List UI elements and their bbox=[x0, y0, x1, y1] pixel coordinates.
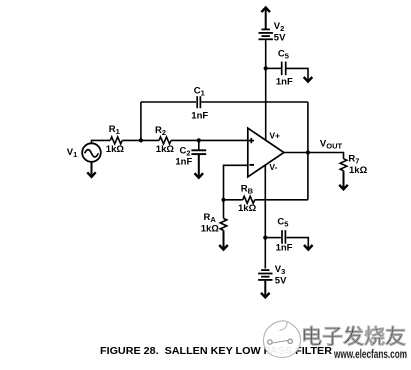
wire main signal line V1 to R1 bbox=[92, 140, 111, 143]
wire C5 bottom to ground bbox=[287, 238, 309, 248]
svg-text:V-: V- bbox=[269, 162, 277, 172]
resistor RB bbox=[243, 196, 255, 203]
svg-text:R1: R1 bbox=[109, 124, 120, 136]
wire V3 to ground bbox=[264, 281, 266, 296]
node C2 junction bbox=[197, 138, 201, 142]
wire feedback riser x=308 bbox=[307, 102, 309, 200]
svg-text:V2: V2 bbox=[274, 21, 285, 33]
wire node A riser to C1 line bbox=[140, 102, 142, 140]
svg-text:C5: C5 bbox=[278, 49, 289, 61]
capacitor C2 bbox=[198, 140, 200, 149]
wire to capacitor C5 bottom bbox=[265, 237, 281, 239]
svg-text:1kΩ: 1kΩ bbox=[106, 144, 125, 155]
svg-text:1nF: 1nF bbox=[276, 77, 293, 88]
capacitor C5 (bottom) bbox=[282, 230, 285, 244]
svg-text:1kΩ: 1kΩ bbox=[349, 165, 368, 176]
svg-text:1nF: 1nF bbox=[175, 157, 192, 168]
capacitor C1 bbox=[197, 96, 200, 108]
svg-text:1nF: 1nF bbox=[191, 110, 208, 121]
svg-text:1nF: 1nF bbox=[276, 243, 293, 254]
ground (V3) bbox=[261, 293, 270, 298]
capacitor C5 (top) bbox=[282, 62, 286, 76]
ground (R7) bbox=[339, 185, 348, 190]
op-amp + input sign bbox=[249, 138, 254, 143]
wire V1 to ground bbox=[91, 162, 93, 175]
battery V3 bbox=[258, 270, 272, 280]
svg-text:电子发烧友: 电子发烧友 bbox=[301, 325, 407, 349]
svg-text:1kΩ: 1kΩ bbox=[238, 203, 257, 214]
wire V2 to op-amp V+ bbox=[265, 40, 267, 140]
svg-text:C2: C2 bbox=[180, 145, 191, 157]
svg-text:R2: R2 bbox=[155, 125, 166, 137]
resistor R7 bbox=[340, 159, 347, 171]
svg-text:C1: C1 bbox=[194, 86, 205, 98]
svg-text:V1: V1 bbox=[67, 147, 78, 159]
svg-text:V3: V3 bbox=[275, 264, 286, 276]
ground (C2) bbox=[195, 173, 204, 178]
node bottom C5 junction bbox=[263, 236, 267, 240]
svg-text:C5: C5 bbox=[277, 217, 288, 229]
power arrow up (V2) bbox=[261, 8, 270, 13]
op-amp U1 bbox=[248, 128, 284, 177]
svg-text:V+: V+ bbox=[269, 131, 280, 141]
svg-text:RA: RA bbox=[204, 212, 217, 224]
wire R2 to op-amp + input bbox=[171, 139, 248, 141]
wire R7 to ground bbox=[343, 171, 345, 188]
resistor RA bbox=[223, 200, 225, 219]
wire C1 line left bbox=[141, 101, 196, 103]
svg-text:5V: 5V bbox=[274, 33, 286, 44]
svg-text:1kΩ: 1kΩ bbox=[156, 144, 175, 155]
resistor R1 bbox=[110, 137, 122, 144]
node VOUT junction bbox=[306, 150, 310, 154]
node A junction bbox=[139, 138, 143, 142]
ground (C5 bottom) bbox=[304, 245, 313, 250]
svg-text:www.elecfans.com: www.elecfans.com bbox=[333, 347, 407, 361]
wire RA to ground bbox=[223, 230, 225, 247]
ground (C5 top) bbox=[304, 77, 313, 82]
source V1 bbox=[82, 143, 101, 162]
wire C1 line right bbox=[201, 101, 308, 103]
wire op-amp output bbox=[284, 153, 344, 159]
svg-text:R7: R7 bbox=[348, 154, 359, 166]
ground (V1) bbox=[87, 172, 95, 177]
svg-text:VOUT: VOUT bbox=[320, 139, 343, 151]
wire R1 to R2 bbox=[122, 139, 159, 141]
wire to RB bbox=[224, 199, 243, 201]
watermark logo bbox=[264, 321, 301, 358]
battery V2 bbox=[259, 29, 273, 39]
svg-text:5V: 5V bbox=[275, 276, 287, 287]
op-amp - input sign bbox=[249, 164, 254, 166]
wire C2 to ground bbox=[198, 155, 200, 176]
svg-text:1kΩ: 1kΩ bbox=[201, 224, 220, 235]
wire - input bbox=[224, 165, 248, 200]
ground (RA) bbox=[219, 245, 228, 250]
wire C5 top to ground bbox=[287, 68, 309, 79]
resistor R2 bbox=[159, 137, 171, 144]
node RB/RA junction bbox=[221, 198, 225, 202]
wire op-amp V- to V3 bbox=[264, 165, 266, 269]
wire to capacitor C5 top bbox=[266, 67, 281, 69]
node top C5 junction bbox=[264, 66, 268, 70]
svg-text:RB: RB bbox=[241, 184, 254, 196]
wire RB to feedback riser bbox=[255, 199, 308, 201]
